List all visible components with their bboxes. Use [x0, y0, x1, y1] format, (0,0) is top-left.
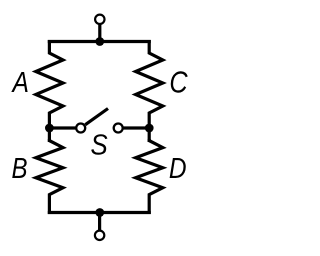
wire right rail upper + resistor C zigzag	[136, 40, 163, 142]
bottom terminal circle	[95, 231, 104, 240]
wire top rail	[48, 40, 151, 43]
svg-text:S: S	[90, 128, 107, 161]
switch S blade	[85, 109, 108, 125]
top terminal circle	[95, 15, 104, 24]
resistor B zigzag + left rail lower	[36, 139, 63, 214]
node top junction	[95, 37, 104, 46]
wire left rail upper + resistor A zigzag	[36, 40, 63, 142]
node left junction	[45, 124, 54, 133]
node bottom junction	[95, 208, 104, 217]
svg-text:C: C	[169, 65, 188, 99]
switch left contact circle	[76, 124, 85, 133]
svg-text:B: B	[11, 152, 27, 185]
wire switch right	[118, 126, 149, 129]
wire switch left	[49, 126, 80, 129]
wire bottom rail	[48, 211, 151, 214]
top terminal lead wire	[98, 19, 101, 41]
svg-text:A: A	[11, 66, 29, 98]
node right junction	[145, 124, 154, 133]
svg-text:D: D	[169, 152, 187, 184]
bottom terminal lead wire	[98, 213, 101, 236]
switch right contact circle	[114, 124, 123, 133]
resistor D zigzag + right rail lower	[136, 139, 163, 214]
